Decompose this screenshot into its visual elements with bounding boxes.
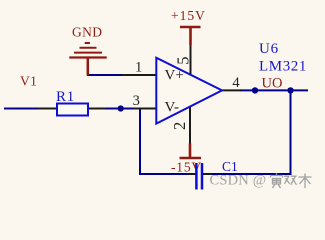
op-amp U6 pin 1 lead xyxy=(122,74,157,76)
power +15V stem xyxy=(189,27,192,45)
wire: feedback vertical left xyxy=(139,108,141,176)
svg-text:4: 4 xyxy=(232,75,240,91)
junction dot at feedback branch xyxy=(287,87,293,93)
junction dot on inverting input net xyxy=(118,105,124,111)
resistor R1 body xyxy=(57,104,88,116)
watermark glyph yin xyxy=(271,173,283,188)
svg-text:GND: GND xyxy=(72,25,102,40)
wire: feedback vertical right xyxy=(290,89,292,175)
wire: feedback bottom right segment xyxy=(211,173,292,175)
svg-text:R1: R1 xyxy=(56,89,75,105)
op-amp U6 triangle xyxy=(156,58,222,124)
svg-text:+15V: +15V xyxy=(171,8,206,23)
watermark glyph mu xyxy=(299,174,312,189)
junction dot on output at UO xyxy=(252,87,258,93)
capacitor C1 plates xyxy=(196,163,202,190)
svg-text:3: 3 xyxy=(133,93,140,109)
power -15V bar xyxy=(180,157,202,159)
op-amp U6 pin 5 lead xyxy=(190,44,192,75)
svg-text:2: 2 xyxy=(170,122,189,130)
svg-text:V1: V1 xyxy=(20,74,37,89)
svg-text:V-: V- xyxy=(165,100,179,116)
resistor R1 pin lead right xyxy=(88,108,105,110)
power -15V stem xyxy=(189,144,192,159)
svg-text:V+: V+ xyxy=(165,67,184,83)
wire: V1 input to R1 xyxy=(4,108,40,110)
ground symbol xyxy=(69,43,106,76)
watermark CSDN xyxy=(210,173,267,189)
svg-text:5: 5 xyxy=(173,57,192,65)
capacitor C1 pin lead right xyxy=(203,173,212,175)
power +15V bar xyxy=(180,26,201,28)
svg-text:U6: U6 xyxy=(259,41,279,57)
capacitor C1 pin lead left xyxy=(187,173,196,175)
wire: output of pin 4 xyxy=(240,89,308,91)
op-amp U6 pin 3 lead xyxy=(134,108,157,110)
wire: ground to pin 1 xyxy=(87,74,124,76)
resistor R1 pin lead left xyxy=(38,108,57,110)
svg-text:UO: UO xyxy=(262,76,283,92)
op-amp U6 pin 2 lead xyxy=(189,106,191,145)
watermark glyph shuang xyxy=(284,176,297,185)
wire: feedback bottom left segment xyxy=(139,173,188,175)
op-amp U6 pin 4 lead xyxy=(220,89,241,91)
svg-text:LM321: LM321 xyxy=(259,59,307,75)
svg-text:1: 1 xyxy=(135,60,142,76)
wire: R1 to inverting node xyxy=(104,108,141,110)
svg-text:CSDN @: CSDN @ xyxy=(210,173,267,189)
